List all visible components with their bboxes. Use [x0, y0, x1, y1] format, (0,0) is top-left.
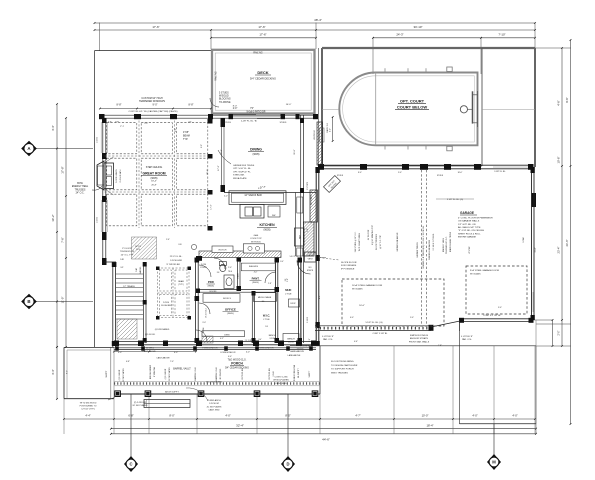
svg-text:ENERGY HEEL: ENERGY HEEL	[72, 186, 89, 188]
svg-text:DW: DW	[272, 215, 276, 217]
svg-text:5T 2V8 RSD BM: 5T 2V8 RSD BM	[166, 264, 180, 266]
svg-text:9'-0": 9'-0"	[175, 128, 177, 132]
svg-text:6'-0": 6'-0"	[350, 317, 354, 319]
svg-text:(2)2-2X8 DR: (2)2-2X8 DR	[119, 369, 121, 380]
svg-text:8' SPACING: 8' SPACING	[153, 366, 156, 377]
svg-text:W/SOLID: W/SOLID	[219, 96, 229, 98]
svg-text:BARREL VAULT: BARREL VAULT	[173, 368, 191, 371]
svg-text:TEMPERED WINDOWS: TEMPERED WINDOWS	[139, 100, 165, 103]
svg-text:BEAM: BEAM	[178, 280, 184, 283]
svg-text:DESK: DESK	[224, 334, 230, 336]
svg-text:9-0x8-0 PATIO DR: 9-0x8-0 PATIO DR	[247, 111, 266, 114]
svg-text:4'@16' SPACING TYP: 4'@16' SPACING TYP	[371, 224, 374, 245]
svg-text:3'-0": 3'-0"	[202, 322, 206, 324]
svg-text:STEEL BM.: STEEL BM.	[233, 175, 245, 177]
svg-text:2-2X10 W/: 2-2X10 W/	[209, 403, 219, 405]
svg-text:GREAT ROOM: GREAT ROOM	[142, 171, 165, 175]
svg-text:44'-6": 44'-6"	[322, 438, 330, 442]
svg-text:DINING: DINING	[250, 147, 262, 151]
svg-text:5-3 L'8" RL: 5-3 L'8" RL	[290, 256, 298, 258]
svg-text:44'-6": 44'-6"	[565, 239, 569, 246]
svg-text:TRUSSES 24" O.C.: TRUSSES 24" O.C.	[446, 236, 448, 254]
svg-text:16'-0": 16'-0"	[458, 172, 463, 174]
svg-text:1'-6": 1'-6"	[309, 338, 311, 342]
svg-text:FLOOR HEARTH: FLOOR HEARTH	[115, 168, 118, 183]
svg-text:2-2X8: 2-2X8	[269, 338, 274, 340]
svg-text:17'-0": 17'-0"	[221, 149, 223, 155]
svg-text:W/ GLASS: W/ GLASS	[352, 287, 363, 290]
svg-text:ON GARAGE WALLS: ON GARAGE WALLS	[458, 220, 480, 223]
svg-text:LAND ABOVE: LAND ABOVE	[288, 354, 301, 357]
svg-text:5 1/8" FL. BL. (G): 5 1/8" FL. BL. (G)	[447, 199, 464, 201]
svg-text:MECH CHASE: MECH CHASE	[258, 296, 272, 299]
svg-text:4C NO PLATES: 4C NO PLATES	[207, 405, 222, 408]
svg-text:SUPP'T: SUPP'T	[106, 370, 108, 378]
svg-text:11'-0": 11'-0"	[294, 149, 296, 154]
svg-text:VENT: VENT	[308, 258, 314, 260]
svg-text:6 L'8"X6 L'8": 6 L'8"X6 L'8"	[322, 336, 334, 338]
svg-text:2-1/8" FL. BL.: 2-1/8" FL. BL.	[494, 171, 506, 173]
svg-text:OFFICE: OFFICE	[225, 308, 236, 312]
svg-text:2'-6": 2'-6"	[166, 239, 170, 241]
svg-text:8'-8": 8'-8"	[117, 104, 122, 107]
svg-text:@2-2X8 RAISED: @2-2X8 RAISED	[206, 381, 222, 384]
svg-text:LAND ABOVE: LAND ABOVE	[290, 350, 304, 353]
svg-text:"X" GYP. BD. ON CEILING: "X" GYP. BD. ON CEILING	[458, 230, 484, 232]
svg-text:TO ABOVE: TO ABOVE	[219, 101, 231, 104]
svg-text:SIMPSON STHD14: SIMPSON STHD14	[410, 335, 429, 337]
svg-text:HUTCH: HUTCH	[219, 250, 227, 252]
svg-text:4'-6": 4'-6"	[354, 341, 358, 343]
svg-text:1/2" GYP. BD. ON: 1/2" GYP. BD. ON	[458, 224, 476, 226]
svg-text:4'-6": 4'-6"	[557, 100, 561, 105]
svg-text:FLUSH BM: FLUSH BM	[161, 305, 171, 307]
svg-text:(9605): (9605)	[253, 153, 260, 156]
svg-text:5'-2": 5'-2"	[224, 196, 228, 198]
svg-text:4'-0": 4'-0"	[330, 128, 332, 132]
svg-text:ENTIRE GARAGE: ENTIRE GARAGE	[458, 236, 477, 239]
svg-text:@ 16" O.C. TYP: @ 16" O.C. TYP	[380, 234, 382, 249]
svg-text:ANCHOR STRAPS: ANCHOR STRAPS	[410, 337, 429, 340]
svg-text:CONT 3/4 LVL* RL (CASTER (CAP: CONT 3/4 LVL* RL (CASTER (CAP*103) (CAST…	[129, 110, 178, 113]
svg-text:BOOK S: BOOK S	[223, 298, 231, 300]
svg-text:2-1 3/4 X 11 7/8 LVL: 2-1 3/4 X 11 7/8 LVL	[433, 233, 435, 250]
svg-text:RATIO: RATIO	[307, 254, 313, 257]
svg-text:TO SUPPORT PORCH: TO SUPPORT PORCH	[331, 369, 354, 371]
svg-text:STEPS: STEPS	[307, 270, 314, 272]
svg-text:OPT. 5-16" FL. BL.: OPT. 5-16" FL. BL.	[233, 168, 252, 170]
svg-text:W/DIA PLATE: W/DIA PLATE	[233, 177, 247, 180]
svg-text:ENERGY HEEL: ENERGY HEEL	[443, 237, 445, 252]
svg-text:8C NO PLATES: 8C NO PLATES	[122, 368, 125, 382]
svg-text:7'-10": 7'-10"	[498, 33, 505, 37]
svg-text:4'-0": 4'-0"	[118, 352, 122, 354]
svg-text:OPT. W1/FLD" FL.: OPT. W1/FLD" FL.	[233, 171, 251, 173]
svg-text:PLNSD ARCH: PLNSD ARCH	[207, 399, 221, 402]
svg-text:2-2X10 HDR: 2-2X10 HDR	[170, 260, 182, 262]
svg-text:17'-8": 17'-8"	[61, 166, 65, 173]
svg-text:CANT. END: CANT. END	[209, 409, 220, 412]
svg-text:2'-8": 2'-8"	[438, 345, 442, 347]
svg-text:CONT. 5-2X6: CONT. 5-2X6	[274, 377, 288, 379]
svg-text:9'-0": 9'-0"	[398, 172, 402, 174]
svg-text:24" O.C.: 24" O.C.	[76, 193, 85, 195]
svg-text:3" FLOOR: 3" FLOOR	[122, 248, 132, 250]
svg-text:CUT'D PL BM: CUT'D PL BM	[242, 368, 244, 380]
svg-text:BARREL: BARREL	[139, 266, 142, 273]
svg-text:18'-4": 18'-4"	[426, 424, 433, 428]
svg-text:4" STEP: 4" STEP	[469, 246, 471, 254]
svg-text:POST BURIED TO: POST BURIED TO	[80, 406, 97, 408]
svg-text:2'-0": 2'-0"	[558, 330, 561, 335]
svg-text:8C NO PLATES: 8C NO PLATES	[133, 404, 148, 407]
svg-text:ENERGY HEEL TRUSS: ENERGY HEEL TRUSS	[450, 231, 452, 252]
svg-text:FOREGONE DR: FOREGONE DR	[221, 352, 236, 354]
svg-text:4'-4": 4'-4"	[51, 369, 55, 374]
svg-text:TO DESIGN CANTILEVER: TO DESIGN CANTILEVER	[331, 364, 358, 367]
svg-text:30'-10": 30'-10"	[414, 25, 423, 29]
svg-text:17'-6": 17'-6"	[211, 204, 213, 209]
svg-text:5 STUDS: 5 STUDS	[219, 92, 229, 94]
svg-text:(9605): (9605)	[208, 286, 215, 288]
svg-text:7'0": 7'0"	[250, 108, 254, 110]
svg-text:PORCH: PORCH	[231, 361, 243, 365]
svg-text:8C NO PLATES: 8C NO PLATES	[168, 367, 171, 381]
svg-text:4'-0": 4'-0"	[319, 295, 321, 299]
svg-text:GARAGE: GARAGE	[460, 211, 474, 215]
svg-text:5/4" CEDAR DECKING: 5/4" CEDAR DECKING	[225, 367, 249, 370]
svg-text:STUDS: STUDS	[337, 175, 344, 177]
svg-text:NO PLATES: NO PLATES	[219, 368, 222, 379]
svg-text:8'-0": 8'-0"	[358, 172, 362, 174]
svg-text:L'TILE: L'TILE	[263, 319, 270, 321]
svg-text:9'-6": 9'-6"	[565, 97, 569, 102]
svg-text:2'-0": 2'-0"	[233, 108, 238, 110]
svg-text:IF POSSIBLE: IF POSSIBLE	[341, 268, 355, 270]
svg-text:48'-4": 48'-4"	[314, 18, 322, 22]
svg-text:6'-0": 6'-0"	[174, 352, 178, 354]
svg-text:2X6 STUDS @ 16" O.C.: 2X6 STUDS @ 16" O.C.	[355, 231, 357, 252]
svg-text:8'-8": 8'-8"	[189, 104, 194, 107]
svg-text:3'-0": 3'-0"	[498, 307, 502, 309]
svg-text:4'-0": 4'-0"	[228, 356, 232, 358]
svg-text:7'0": 7'0"	[188, 122, 191, 124]
svg-text:2-2X10: 2-2X10	[307, 317, 309, 323]
svg-text:6'-8": 6'-8"	[108, 122, 112, 124]
svg-text:CANT ABOVE: CANT ABOVE	[156, 357, 170, 360]
svg-text:M: M	[492, 460, 496, 465]
svg-text:C: C	[129, 462, 132, 467]
svg-text:TR'TD 6X6 WOOD: TR'TD 6X6 WOOD	[80, 403, 97, 405]
svg-text:10'-0": 10'-0"	[422, 414, 429, 418]
svg-text:BLOCK'NG: BLOCK'NG	[219, 99, 231, 101]
svg-text:CUT'D PL BM: CUT'D PL BM	[269, 368, 271, 380]
svg-text:4'-7": 4'-7"	[355, 414, 360, 418]
svg-text:ALL WALLS 5/8" TYPE: ALL WALLS 5/8" TYPE	[458, 226, 481, 229]
svg-text:16-2 X 10-4: 16-2 X 10-4	[206, 308, 208, 317]
svg-text:CHASE: CHASE	[237, 272, 240, 279]
svg-text:CONT 3-1 7/8" RL: CONT 3-1 7/8" RL	[483, 315, 502, 317]
svg-text:W/ GLASS: W/ GLASS	[470, 272, 481, 275]
svg-text:32'-4": 32'-4"	[236, 424, 244, 428]
svg-text:STUDS: STUDS	[437, 175, 444, 177]
svg-text:UNDER O.B TRUSS(ES) 2-1 3/4 X: UNDER O.B TRUSS(ES) 2-1 3/4 X 11 7/8 LVL	[423, 225, 425, 268]
svg-text:2-6: 2-6	[262, 301, 265, 303]
svg-text:W/ HOOD: W/ HOOD	[251, 241, 261, 243]
svg-text:(9605): (9605)	[227, 313, 234, 315]
svg-text:5/4" CEDAR DECKING: 5/4" CEDAR DECKING	[250, 78, 276, 81]
svg-text:PDR: PDR	[208, 280, 214, 284]
svg-text:3 CAR: 3 CAR	[522, 237, 525, 243]
svg-text:8'-0": 8'-0"	[169, 414, 174, 418]
svg-text:SUPP'T: SUPP'T	[309, 370, 311, 378]
svg-text:B: B	[27, 299, 30, 304]
svg-text:21'-8": 21'-8"	[535, 247, 537, 252]
svg-text:12"X12" (TYP.): 12"X12" (TYP.)	[81, 409, 95, 411]
svg-text:GIRDER LINE ABOVE: GIRDER LINE ABOVE	[428, 239, 431, 260]
svg-text:4'-0": 4'-0"	[246, 352, 250, 354]
svg-text:2-8: 2-8	[217, 272, 220, 274]
svg-text:SLOPE FLOOR: SLOPE FLOOR	[341, 262, 357, 264]
svg-text:SHEET ROCK & ROLL: SHEET ROCK & ROLL	[458, 233, 481, 235]
svg-text:KITCHEN: KITCHEN	[259, 223, 275, 227]
svg-text:2-8: 2-8	[265, 326, 268, 328]
svg-text:5'-0": 5'-0"	[410, 317, 414, 319]
svg-text:W/ NO-PLATES: W/ NO-PLATES	[273, 379, 289, 382]
svg-text:OPT. COURT: OPT. COURT	[400, 99, 425, 104]
svg-text:24'-3": 24'-3"	[396, 33, 403, 37]
svg-text:GAS: GAS	[254, 234, 259, 237]
svg-text:5 1/8" FL. BL. (G): 5 1/8" FL. BL. (G)	[365, 322, 382, 324]
svg-text:17'-6": 17'-6"	[152, 25, 159, 29]
svg-text:FLOW-IN BATH: FLOW-IN BATH	[119, 169, 122, 182]
svg-text:DECK: DECK	[257, 70, 268, 75]
svg-text:3'-0": 3'-0"	[280, 261, 284, 263]
svg-text:DESK: DESK	[203, 327, 205, 333]
svg-text:9'-0": 9'-0"	[258, 188, 262, 190]
svg-text:@2-2X8 RAISED: @2-2X8 RAISED	[155, 328, 170, 331]
svg-text:9'-0": 9'-0"	[201, 144, 203, 148]
svg-text:TRUSS B'LOW: TRUSS B'LOW	[120, 251, 134, 253]
svg-text:FLOOR TRUSSES: FLOOR TRUSSES	[376, 233, 378, 250]
svg-text:SL'P'G: SL'P'G	[135, 246, 141, 248]
svg-text:9'-0": 9'-0"	[153, 104, 158, 107]
svg-text:W.I.C.: W.I.C.	[263, 314, 271, 318]
svg-text:10'-6": 10'-6"	[557, 157, 561, 164]
svg-text:4'-4": 4'-4"	[85, 414, 90, 418]
svg-text:4'-0": 4'-0"	[512, 414, 517, 418]
svg-text:2-1/8" FL. BL. "A": 2-1/8" FL. BL. "A"	[241, 120, 257, 123]
svg-text:(9605): (9605)	[151, 177, 158, 180]
svg-text:(9605): (9605)	[252, 282, 259, 284]
svg-text:COURT BELOW: COURT BELOW	[397, 105, 427, 110]
svg-text:4'-0": 4'-0"	[254, 272, 258, 274]
svg-text:2 STORY: 2 STORY	[307, 181, 309, 190]
svg-text:STUDS: STUDS	[224, 122, 231, 124]
svg-text:17'-6": 17'-6"	[259, 33, 266, 37]
svg-text:17'-0": 17'-0"	[218, 165, 220, 171]
svg-text:7'-0": 7'-0"	[170, 361, 174, 363]
svg-text:BL SUPP'T: BL SUPP'T	[298, 367, 300, 377]
svg-text:2'-8": 2'-8"	[268, 283, 272, 285]
svg-text:GIRDER FLR TRUSS: GIRDER FLR TRUSS	[233, 165, 255, 167]
svg-text:BARREL 2-2X8: BARREL 2-2X8	[215, 367, 218, 380]
svg-text:9'x8' STEEL GARAGE DOOR: 9'x8' STEEL GARAGE DOOR	[470, 269, 499, 272]
svg-text:14' FLOOR: 14' FLOOR	[368, 229, 370, 240]
svg-text:16'x8' STEEL GARAGE DOOR: 16'x8' STEEL GARAGE DOOR	[352, 284, 383, 287]
svg-text:W'ND FOREGONE: W'ND FOREGONE	[294, 364, 296, 381]
svg-text:4'-4": 4'-4"	[51, 125, 55, 130]
svg-text:BOOKS: BOOKS	[210, 291, 217, 293]
svg-text:STUDS: STUDS	[280, 122, 287, 124]
svg-text:4'-2": 4'-2"	[220, 338, 224, 340]
svg-text:DROP: DROP	[290, 303, 296, 305]
svg-text:2-2X6: 2-2X6	[97, 136, 99, 142]
svg-text:22'-0" FL. BL.: 22'-0" FL. BL.	[170, 256, 183, 258]
svg-text:TRUSSES: TRUSSES	[75, 189, 86, 191]
svg-text:11'-0": 11'-0"	[61, 297, 65, 304]
svg-text:PANT.: PANT.	[252, 277, 260, 281]
svg-text:4'-0": 4'-0"	[225, 414, 230, 418]
svg-text:ARCH SUPP'T: ARCH SUPP'T	[165, 390, 180, 393]
svg-text:STEP CEILING: STEP CEILING	[146, 166, 163, 169]
svg-text:23'-4": 23'-4"	[557, 247, 561, 254]
svg-text:BRK'NG UNDER: BRK'NG UNDER	[150, 364, 152, 379]
svg-text:MUD: MUD	[285, 288, 291, 292]
svg-text:2-2X8: 2-2X8	[273, 371, 275, 376]
svg-text:2 TILE: 2 TILE	[285, 294, 292, 296]
svg-text:CL'G: CL'G	[136, 249, 141, 251]
svg-text:(TYP.): (TYP.)	[178, 284, 184, 286]
svg-text:(2) 2-2X8 OR: (2) 2-2X8 OR	[134, 402, 147, 404]
svg-text:6'-8": 6'-8"	[126, 361, 130, 363]
svg-text:FRONT GAR. WALLS: FRONT GAR. WALLS	[409, 340, 430, 343]
svg-text:2'-8": 2'-8"	[287, 278, 289, 282]
svg-text:1'-2": 1'-2"	[238, 261, 242, 263]
svg-text:(2)1-3/4 LVL: (2)1-3/4 LVL	[145, 334, 155, 336]
svg-text:GIRDER LINE ABOVE: GIRDER LINE ABOVE	[396, 232, 399, 252]
svg-text:16'-0": 16'-0"	[359, 305, 365, 307]
svg-text:SHELVES: SHELVES	[249, 266, 259, 268]
svg-text:12" SNACK BAR: 12" SNACK BAR	[244, 194, 262, 197]
svg-text:PAR. COL.: PAR. COL.	[323, 338, 334, 341]
svg-text:KEEPER M: KEEPER M	[314, 130, 316, 140]
svg-text:TYP.: TYP.	[183, 138, 188, 141]
svg-text:PAR. COL.: PAR. COL.	[462, 338, 473, 341]
svg-text:(9605): (9605)	[264, 229, 271, 232]
svg-text:2-2X10: 2-2X10	[163, 302, 169, 304]
svg-text:W/NO TRUSSES: W/NO TRUSSES	[331, 372, 348, 374]
svg-text:BOW: BOW	[77, 183, 83, 185]
svg-text:BENCH: BENCH	[269, 335, 276, 337]
svg-text:20'-6": 20'-6"	[207, 169, 209, 174]
svg-text:BARREL 2-2X8: BARREL 2-2X8	[194, 367, 197, 380]
svg-text:D: D	[286, 462, 289, 467]
svg-text:FOR 3 RISERS: FOR 3 RISERS	[341, 265, 357, 267]
svg-text:4" CONC. FLOOR W/ FIBERMESH: 4" CONC. FLOOR W/ FIBERMESH	[458, 217, 493, 219]
svg-text:4 L'8"X6 L'8": 4 L'8"X6 L'8"	[461, 336, 473, 338]
svg-text:19'-2": 19'-2"	[51, 214, 55, 221]
svg-text:BENCH: BENCH	[287, 339, 295, 341]
svg-text:18'-4": 18'-4"	[151, 181, 157, 183]
svg-text:COOK TOP: COOK TOP	[250, 238, 262, 240]
svg-text:26'-8": 26'-8"	[151, 185, 157, 187]
svg-text:2-2X6: 2-2X6	[97, 216, 99, 222]
svg-text:8'-0": 8'-0"	[233, 105, 238, 107]
svg-text:CONT 5 5/8" BL: CONT 5 5/8" BL	[373, 333, 389, 335]
svg-text:W/ R-19 BATT INSUL: W/ R-19 BATT INSUL	[358, 233, 361, 251]
svg-text:4'-0": 4'-0"	[472, 414, 477, 418]
svg-text:17'-6": 17'-6"	[258, 25, 265, 29]
svg-text:RAIL'NG: RAIL'NG	[253, 51, 262, 54]
svg-text:12" TREADS: 12" TREADS	[123, 285, 135, 288]
svg-text:RAIL'NG: RAIL'NG	[215, 71, 218, 80]
svg-text:TYP: TYP	[144, 123, 149, 125]
svg-text:(2)2-2X8 DR: (2)2-2X8 DR	[165, 368, 167, 379]
svg-text:CANT. END: CANT. END	[275, 382, 287, 385]
svg-text:14'-0": 14'-0"	[286, 104, 292, 106]
svg-text:2'-0": 2'-0"	[228, 267, 232, 269]
svg-text:GIRDER TRUSS: GIRDER TRUSS	[417, 242, 419, 258]
svg-text:7'-6": 7'-6"	[61, 237, 65, 242]
svg-text:FLOOR TRUSS BRNG.: FLOOR TRUSS BRNG.	[331, 361, 354, 363]
